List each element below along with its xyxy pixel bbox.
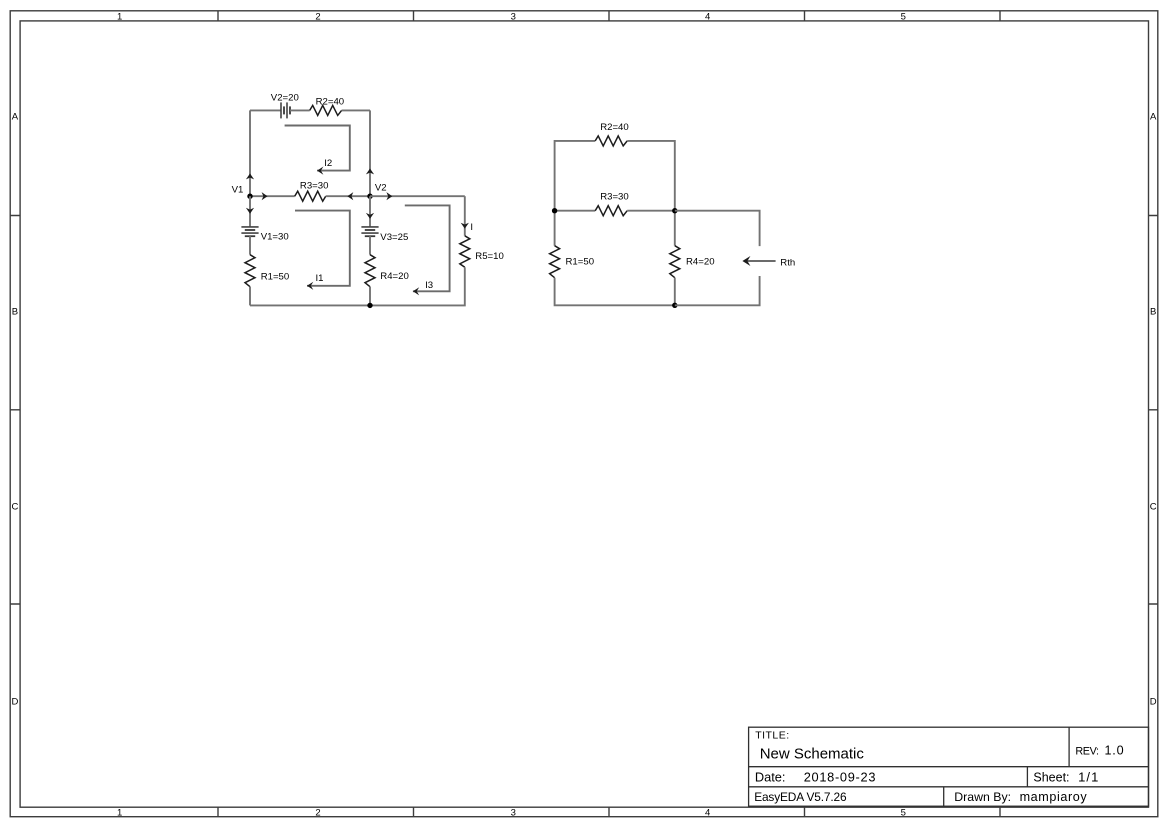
svg-text:R5=10: R5=10 [475,251,504,262]
wire R1 to bottom [249,287,251,306]
resistor R1 [245,255,255,287]
loop arrow I2 [285,126,350,171]
svg-text:R2=40: R2=40 [316,96,345,107]
title block Sheet divider [1026,767,1028,787]
current arrow up on V1 rail [246,174,254,180]
current arrow right after V1 node [262,192,268,200]
svg-text:R2=40: R2=40 [600,122,629,133]
svg-text:3: 3 [511,11,516,22]
resistor R5 [460,236,470,267]
resistor R2b [595,136,627,146]
current arrow down on R5 branch [461,223,469,229]
svg-text:A: A [1150,112,1157,123]
wire Rth stub top [675,211,760,246]
svg-text:mampiaroy: mampiaroy [1020,790,1088,804]
ruler numbers top [117,11,906,22]
wire bottom horizontal [250,304,370,306]
title block row divider 2 [749,786,1149,788]
wire middle horizontal V1 to R3 [250,195,295,197]
svg-text:R1=50: R1=50 [261,272,290,283]
battery V3 [361,227,378,236]
title block outline [749,727,1149,806]
resistor R4b [670,246,680,278]
current arrow up on V2 rail [366,169,374,175]
svg-text:A: A [12,112,19,123]
svg-text:New Schematic: New Schematic [760,746,865,763]
svg-text:V1: V1 [232,185,244,196]
node mid junction dot [672,208,677,213]
svg-text:R3=30: R3=30 [300,181,329,192]
frame top ticks [218,11,1000,21]
svg-text:Rth: Rth [780,257,795,268]
wire R5 branch vertical bottom [370,267,465,305]
wire between V2 and R2 [290,109,310,111]
svg-text:C: C [1150,502,1157,513]
svg-text:V2: V2 [375,183,387,194]
svg-text:R4=20: R4=20 [380,271,409,282]
svg-text:1.0: 1.0 [1105,744,1125,758]
svg-text:D: D [1150,697,1157,708]
node V2 junction dot [367,194,372,199]
svg-text:2: 2 [315,11,320,22]
svg-text:5: 5 [901,11,906,22]
svg-text:4: 4 [705,11,710,22]
svg-text:D: D [11,697,18,708]
resistor R3b [595,206,627,216]
svg-text:I1: I1 [316,273,324,284]
annotation arrow Rth [747,260,776,262]
svg-text:B: B [12,307,18,318]
node V1 junction dot [247,194,252,199]
wire middle left segment [555,210,596,212]
wire middle horizontal R3 to V2 node [326,195,370,197]
svg-text:V1=30: V1=30 [261,231,289,242]
wire V3 rail below V2 node [369,196,371,227]
wire left rail to R1b [554,211,556,246]
svg-text:R1=50: R1=50 [566,257,595,268]
wire R4 to bottom node [369,287,371,306]
svg-text:1/1: 1/1 [1078,769,1099,784]
svg-text:REV:: REV: [1075,746,1099,758]
frame bottom ticks [218,807,1000,817]
svg-text:1: 1 [117,11,122,22]
ruler numbers bottom [117,807,906,818]
battery V2 [281,102,290,118]
wire middle right segment [627,210,675,212]
wire left rail top [555,141,596,211]
wire top-left vertical (V1 rail top) [249,110,251,196]
wire V2 node to R5 branch [370,195,465,197]
svg-text:5: 5 [901,807,906,818]
svg-text:I3: I3 [425,280,433,291]
resistor R3 [295,191,326,201]
wire R5 branch vertical top [464,196,466,236]
frame left ticks [10,216,20,605]
title block row divider 1 [749,766,1149,768]
wire V1 battery to R1 [249,236,251,255]
svg-text:2: 2 [315,807,320,818]
svg-text:B: B [1150,307,1156,318]
svg-text:R4=20: R4=20 [686,257,715,268]
node bottom junction dot [672,303,677,308]
svg-text:R3=30: R3=30 [600,192,629,203]
wire V3 battery to R4 [369,236,371,255]
loop arrow I3 [405,205,450,291]
svg-text:C: C [11,502,18,513]
battery V1 [241,227,258,236]
ruler letters left [11,112,18,708]
wire mid rail top (V2 rail top) [369,110,371,196]
current arrow down on V1 rail [246,208,254,214]
ruler letters right [1150,112,1157,708]
svg-text:Date:: Date: [755,769,786,784]
wire V1 rail below node [249,196,251,227]
frame right ticks [1149,216,1158,605]
wire top horizontal right segment [342,109,370,111]
svg-text:I2: I2 [324,158,332,169]
svg-text:Drawn By:: Drawn By: [954,790,1011,804]
current arrow right after V2 node [386,192,392,200]
wire mid rail bottom [674,278,676,306]
svg-text:3: 3 [511,807,516,818]
wire top right segment [627,141,675,211]
wire Rth stub bottom [675,276,760,305]
svg-text:V3=25: V3=25 [380,232,408,243]
svg-text:V2=20: V2=20 [271,92,299,103]
wire top horizontal left segment [250,109,281,111]
title block DrawnBy divider [943,787,945,806]
svg-text:2018-09-23: 2018-09-23 [804,769,876,784]
svg-text:EasyEDA V5.7.26: EasyEDA V5.7.26 [754,790,847,804]
title block REV divider [1068,727,1070,767]
bottom node junction dot [367,303,372,308]
resistor R2 [310,105,342,115]
wire mid rail to R4b [674,211,676,246]
loop arrow I1 [295,211,350,286]
resistor R1b [550,246,560,278]
wire left rail bottom [555,278,675,306]
current arrow left toward R3 [347,192,353,200]
svg-text:Sheet:: Sheet: [1033,770,1069,784]
svg-text:I: I [470,222,473,233]
node left junction dot [552,208,557,213]
resistor R4 [365,255,375,287]
svg-text:4: 4 [705,807,710,818]
svg-text:TITLE:: TITLE: [755,730,790,742]
current arrow down on V3 rail [366,213,374,219]
svg-text:1: 1 [117,807,122,818]
